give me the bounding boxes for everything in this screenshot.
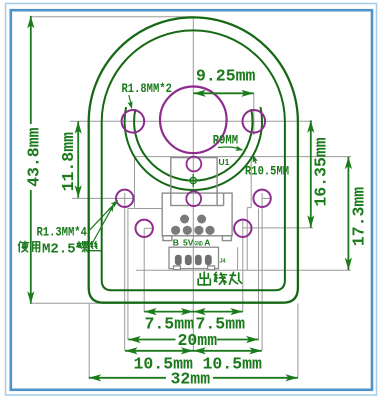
dimension 7.5mm left — [144, 308, 243, 334]
svg-text:5V: 5V — [183, 238, 194, 248]
svg-text:B: B — [173, 238, 179, 248]
central hole R9 circle — [160, 87, 227, 154]
label text 使用M2.5螺丝 — [18, 241, 100, 257]
svg-text:16.35mm: 16.35mm — [311, 137, 330, 206]
hole R1.8 right — [243, 110, 266, 133]
dimension 43.8mm — [25, 16, 44, 304]
hole R1.3 mid-right — [234, 220, 251, 237]
board outline outer edge — [89, 17, 298, 302]
svg-text:20mm: 20mm — [178, 331, 218, 350]
label R1.8MM*2 — [122, 81, 172, 109]
connector J4 body outline — [169, 247, 219, 269]
J4 pads — [175, 255, 212, 266]
U1 pads row1 — [180, 215, 206, 224]
label R10.5MM — [245, 154, 289, 178]
arc R9MM — [134, 109, 252, 181]
dimension 16.35mm — [307, 120, 330, 227]
label text 出线处 — [198, 272, 241, 285]
hole R1.3 top-right — [253, 190, 270, 207]
dimension 9.25mm — [193, 67, 255, 97]
svg-text:M2.5: M2.5 — [42, 241, 76, 257]
dimension 7.5mm right — [193, 308, 245, 334]
svg-text:17.3mm: 17.3mm — [349, 187, 368, 247]
svg-text:J4: J4 — [220, 258, 227, 264]
U1 pads row2 — [171, 226, 215, 235]
svg-text:43.8mm: 43.8mm — [25, 127, 44, 187]
svg-text:R10.5MM: R10.5MM — [245, 164, 289, 179]
svg-text:R9MM: R9MM — [213, 133, 238, 148]
wire gray extension and center lines — [31, 17, 351, 378]
dimension 17.3mm — [345, 157, 369, 271]
U1 pilot circle bottom — [186, 191, 201, 206]
hole R1.3 mid-left — [136, 220, 153, 237]
connector U1 tab outline — [171, 158, 224, 206]
dimension 10.5mm left — [125, 347, 262, 373]
label R9MM — [213, 133, 244, 151]
svg-text:R1.3MM*4: R1.3MM*4 — [37, 225, 87, 240]
U1 pilot circle top — [187, 157, 202, 172]
green target center mark — [187, 174, 200, 187]
svg-text:R1.8MM*2: R1.8MM*2 — [122, 81, 172, 96]
svg-text:GND: GND — [194, 241, 203, 247]
label R1.3MM*4 — [37, 200, 119, 240]
connector U1 body outline — [162, 193, 232, 241]
leader arrow from M2.5 label to hole — [91, 204, 114, 246]
svg-text:A: A — [204, 238, 210, 248]
dimension 32mm — [89, 369, 298, 388]
hole R1.8 left — [122, 110, 145, 133]
arc R10.5MM — [125, 107, 262, 190]
svg-text:32mm: 32mm — [171, 369, 211, 388]
hole R1.3 top-left — [116, 190, 133, 207]
svg-text:9.25mm: 9.25mm — [196, 67, 256, 86]
svg-text:10.5mm: 10.5mm — [203, 354, 263, 373]
dimension 10.5mm right — [193, 347, 262, 373]
dimension 20mm — [128, 331, 258, 350]
svg-text:11.8mm: 11.8mm — [59, 132, 78, 192]
dimension 11.8mm — [59, 121, 82, 197]
board outline inner edge — [102, 30, 285, 290]
svg-text:U1: U1 — [219, 157, 230, 167]
